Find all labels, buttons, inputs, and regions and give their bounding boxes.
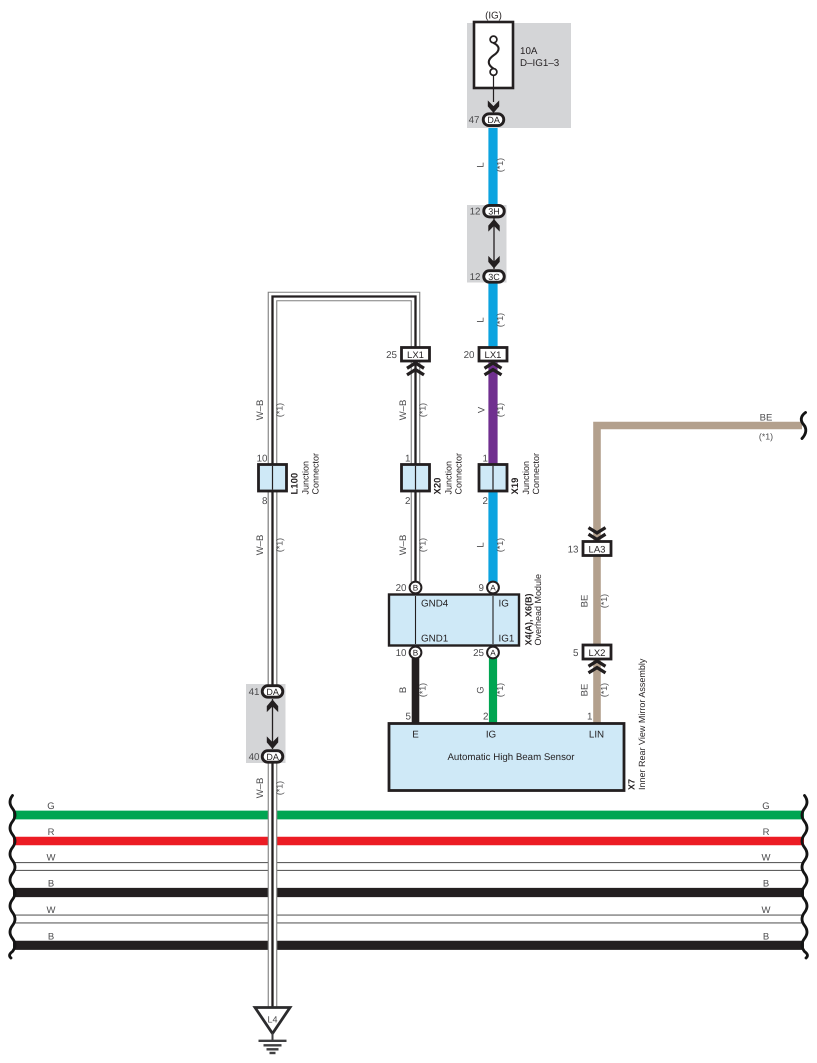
svg-text:DA: DA <box>487 115 500 125</box>
svg-text:W: W <box>47 905 56 916</box>
svg-text:E: E <box>412 730 419 741</box>
svg-text:20: 20 <box>464 350 475 361</box>
svg-text:W: W <box>762 905 771 916</box>
svg-text:LA3: LA3 <box>589 545 606 556</box>
svg-text:Junction: Junction <box>521 461 531 495</box>
svg-text:12: 12 <box>470 207 481 218</box>
svg-text:DA: DA <box>266 752 279 762</box>
svg-text:Connector: Connector <box>454 453 464 495</box>
svg-text:LX1: LX1 <box>407 350 424 361</box>
svg-text:Connector: Connector <box>311 453 321 495</box>
svg-text:(*1): (*1) <box>418 538 428 552</box>
svg-text:20: 20 <box>396 583 407 594</box>
svg-text:LIN: LIN <box>589 730 604 741</box>
svg-text:(*1): (*1) <box>275 403 285 417</box>
svg-text:X20: X20 <box>433 478 444 495</box>
svg-text:1: 1 <box>405 454 410 465</box>
svg-text:D–IG1–3: D–IG1–3 <box>520 58 560 69</box>
svg-text:(*1): (*1) <box>495 403 505 417</box>
svg-text:V: V <box>477 406 488 413</box>
svg-text:B: B <box>413 584 419 593</box>
svg-text:GND1: GND1 <box>421 634 448 645</box>
svg-text:DA: DA <box>266 687 279 697</box>
svg-text:BE: BE <box>580 595 591 608</box>
svg-text:(*1): (*1) <box>759 432 773 442</box>
svg-text:R: R <box>48 827 55 838</box>
svg-text:40: 40 <box>249 752 260 763</box>
svg-text:(*1): (*1) <box>418 403 428 417</box>
svg-text:W–B: W–B <box>255 778 266 799</box>
svg-text:L: L <box>476 317 487 322</box>
svg-text:B: B <box>398 687 409 693</box>
svg-text:IG: IG <box>486 730 496 741</box>
svg-text:W–B: W–B <box>398 535 409 556</box>
svg-text:W–B: W–B <box>255 400 266 421</box>
svg-text:5: 5 <box>406 712 412 723</box>
svg-text:B: B <box>48 879 54 890</box>
svg-text:3H: 3H <box>488 207 500 217</box>
svg-text:A: A <box>490 584 496 593</box>
svg-text:B: B <box>763 931 769 942</box>
svg-text:A: A <box>490 649 496 658</box>
svg-text:Inner Rear View Mirror Assembl: Inner Rear View Mirror Assembly <box>637 658 647 790</box>
svg-text:IG: IG <box>499 599 509 610</box>
svg-text:1: 1 <box>587 712 592 723</box>
svg-text:41: 41 <box>249 687 260 698</box>
svg-text:X19: X19 <box>510 478 521 495</box>
svg-text:13: 13 <box>568 545 579 556</box>
svg-text:W: W <box>762 853 771 864</box>
svg-text:BE: BE <box>760 413 773 424</box>
svg-text:BE: BE <box>580 684 591 697</box>
svg-text:2: 2 <box>405 496 410 507</box>
svg-text:12: 12 <box>470 272 481 283</box>
svg-text:47: 47 <box>469 115 480 126</box>
svg-text:Junction: Junction <box>301 461 311 495</box>
svg-text:L: L <box>476 542 487 547</box>
svg-text:W–B: W–B <box>398 400 409 421</box>
svg-text:G: G <box>47 801 54 812</box>
svg-text:5: 5 <box>573 648 579 659</box>
svg-text:Junction: Junction <box>444 461 454 495</box>
svg-text:3C: 3C <box>488 272 500 282</box>
svg-text:Connector: Connector <box>531 453 541 495</box>
svg-text:B: B <box>763 879 769 890</box>
svg-text:LX1: LX1 <box>485 350 502 361</box>
svg-text:W: W <box>47 853 56 864</box>
svg-text:R: R <box>763 827 770 838</box>
svg-text:10: 10 <box>396 648 407 659</box>
svg-text:2: 2 <box>483 496 488 507</box>
svg-text:X7: X7 <box>627 779 637 790</box>
svg-text:(*1): (*1) <box>418 683 428 697</box>
svg-text:L: L <box>476 162 487 167</box>
svg-text:25: 25 <box>473 648 484 659</box>
svg-text:25: 25 <box>386 350 397 361</box>
svg-text:W–B: W–B <box>255 535 266 556</box>
svg-text:(*1): (*1) <box>275 781 285 795</box>
svg-text:10A: 10A <box>520 46 538 57</box>
svg-text:(IG): (IG) <box>485 11 502 22</box>
svg-text:8: 8 <box>262 496 268 507</box>
svg-text:(*1): (*1) <box>495 158 505 172</box>
svg-text:LX2: LX2 <box>589 648 606 659</box>
svg-text:(*1): (*1) <box>599 683 609 697</box>
svg-text:(*1): (*1) <box>495 538 505 552</box>
svg-text:9: 9 <box>479 583 484 594</box>
svg-text:(*1): (*1) <box>495 313 505 327</box>
svg-text:2: 2 <box>483 712 488 723</box>
svg-text:L4: L4 <box>267 1015 277 1025</box>
svg-text:G: G <box>476 686 487 693</box>
svg-text:IG1: IG1 <box>499 634 515 645</box>
svg-text:GND4: GND4 <box>421 599 449 610</box>
svg-text:B: B <box>413 649 419 658</box>
svg-text:G: G <box>762 801 769 812</box>
svg-text:(*1): (*1) <box>599 594 609 608</box>
svg-text:(*1): (*1) <box>275 538 285 552</box>
svg-text:Overhead Module: Overhead Module <box>533 574 543 646</box>
svg-text:1: 1 <box>483 454 488 465</box>
svg-text:X4(A), X6(B): X4(A), X6(B) <box>524 593 534 645</box>
svg-text:L100: L100 <box>290 473 301 495</box>
svg-text:Automatic High Beam Sensor: Automatic High Beam Sensor <box>447 752 575 763</box>
svg-text:10: 10 <box>257 454 268 465</box>
svg-text:(*1): (*1) <box>495 683 505 697</box>
svg-text:B: B <box>48 931 54 942</box>
